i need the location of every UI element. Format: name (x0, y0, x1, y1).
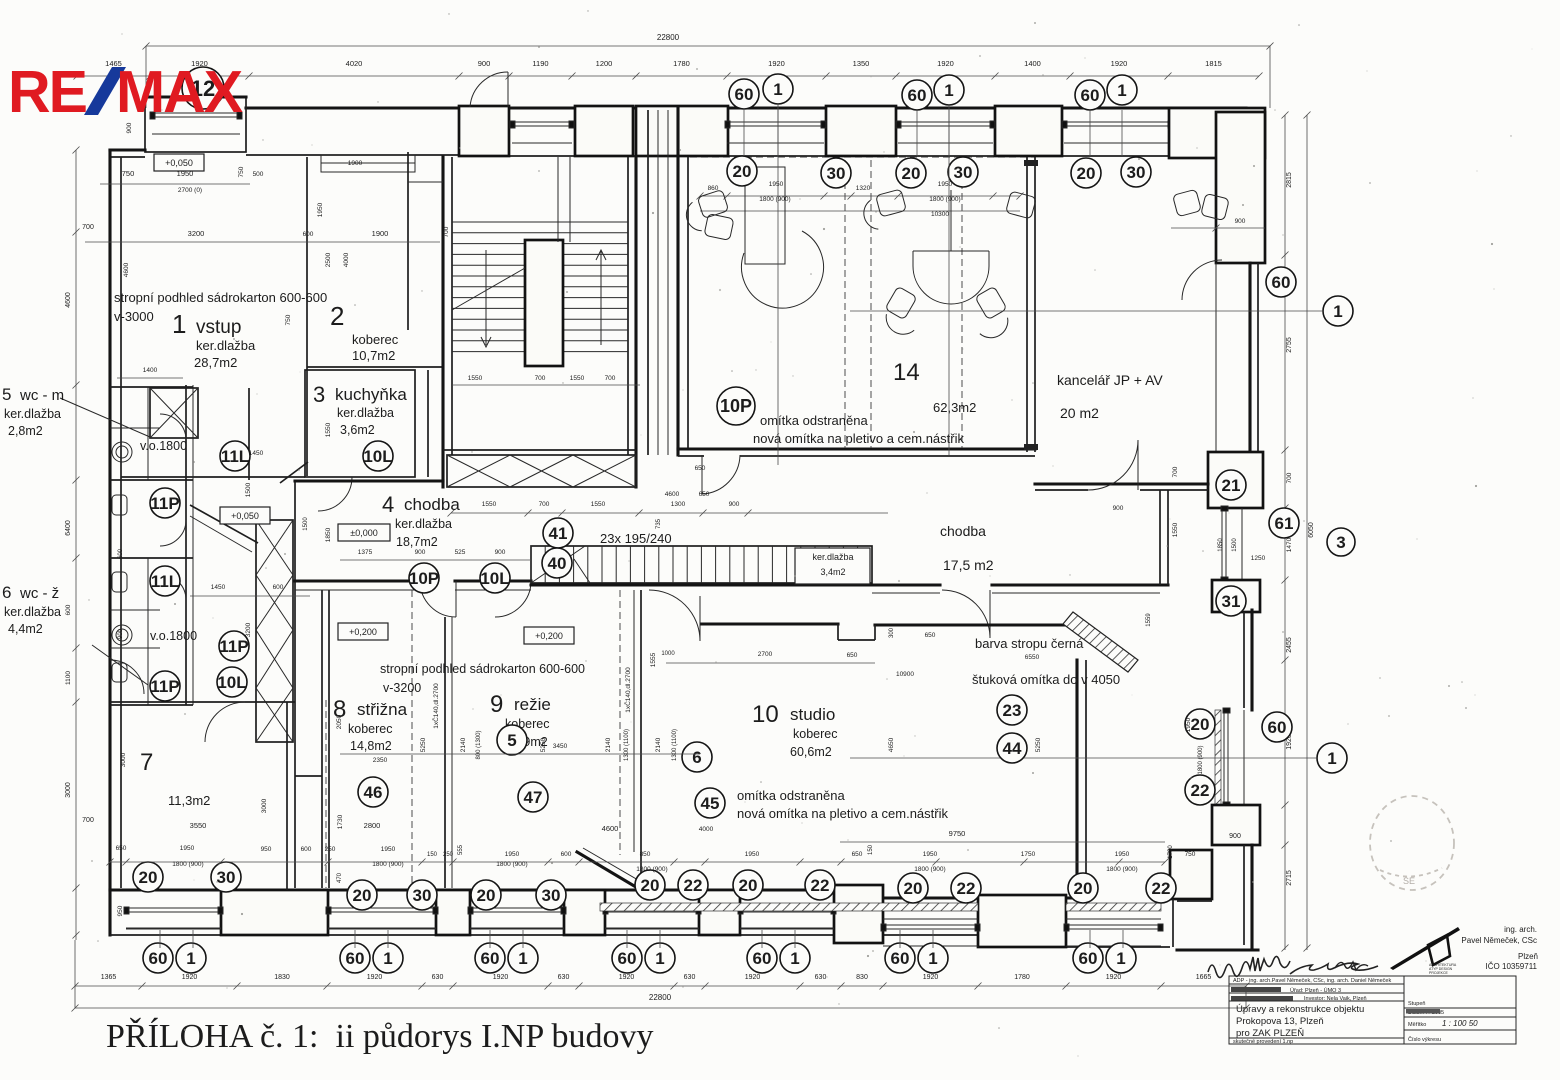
svg-text:1400: 1400 (143, 367, 158, 374)
svg-text:2: 2 (330, 301, 344, 331)
circled ref 60 (1075, 80, 1105, 110)
svg-text:11P: 11P (219, 637, 248, 656)
svg-text:1800 (900): 1800 (900) (172, 861, 203, 868)
svg-text:60,6m2: 60,6m2 (790, 745, 832, 759)
circled ref 61 (1269, 508, 1299, 538)
svg-text:10L: 10L (363, 447, 392, 466)
svg-text:1830: 1830 (274, 974, 290, 981)
REMAX logo (8, 59, 243, 125)
svg-text:ker.dlažba: ker.dlažba (812, 552, 853, 562)
svg-text:1: 1 (773, 80, 782, 99)
bottom dimension chain row (75, 985, 1246, 987)
svg-text:470: 470 (337, 872, 343, 883)
signature squiggles (1208, 956, 1290, 977)
svg-text:900: 900 (1229, 833, 1241, 840)
svg-text:1800 (900): 1800 (900) (636, 866, 667, 873)
svg-text:1320: 1320 (856, 185, 871, 192)
svg-text:10: 10 (752, 701, 779, 728)
stairwell west wall (441, 157, 444, 487)
right dimension chain (1284, 115, 1286, 950)
kuchynka chamfer (280, 462, 308, 483)
svg-text:wc - ž: wc - ž (19, 585, 59, 602)
svg-text:1920: 1920 (923, 974, 939, 981)
axis lines below top circles (743, 110, 745, 156)
svg-text:1780: 1780 (1014, 974, 1030, 981)
circled ref 6 (682, 742, 712, 772)
svg-text:60: 60 (753, 949, 772, 968)
svg-text:1: 1 (1327, 749, 1336, 768)
svg-text:2,8m2: 2,8m2 (8, 424, 43, 438)
svg-text:1950: 1950 (1115, 851, 1130, 858)
svg-text:650: 650 (116, 845, 127, 852)
svg-text:650: 650 (847, 652, 858, 659)
svg-text:pro ZAK PLZEŇ: pro ZAK PLZEŇ (1236, 1028, 1304, 1039)
circled ref 20 (733, 870, 763, 900)
svg-text:1920: 1920 (1106, 974, 1122, 981)
svg-text:61: 61 (1275, 514, 1294, 533)
circled ref 30 (1121, 157, 1151, 187)
circled ref 11P (150, 671, 180, 701)
svg-text:stropní podhled sádrokarton 60: stropní podhled sádrokarton 600-600 (380, 662, 585, 676)
svg-text:1920: 1920 (745, 974, 761, 981)
svg-text:1450: 1450 (249, 450, 264, 457)
svg-text:1665: 1665 (1196, 974, 1212, 981)
svg-text:60: 60 (1272, 273, 1291, 292)
circled ref 46 (358, 777, 388, 807)
stair break line (452, 268, 525, 310)
svg-text:PŘÍLOHA č. 1: ii půdorys I.NP: PŘÍLOHA č. 1: ii půdorys I.NP budovy (106, 1018, 653, 1055)
svg-text:555: 555 (458, 844, 464, 855)
stairwell east wall (634, 157, 637, 487)
svg-text:ADP - ing. arch.Pavel Němeček,: ADP - ing. arch.Pavel Němeček, CSc, ing.… (1233, 978, 1391, 984)
title block (1229, 976, 1516, 1044)
svg-text:PROJEKCE: PROJEKCE (1429, 971, 1449, 975)
svg-text:44: 44 (1003, 739, 1022, 758)
svg-text:vstup: vstup (196, 317, 241, 338)
svg-text:4600: 4600 (123, 262, 130, 277)
svg-text:v-3000: v-3000 (114, 309, 154, 324)
circled ref 60 (729, 79, 759, 109)
circled ref 22 (678, 870, 708, 900)
svg-text:1950: 1950 (769, 181, 784, 188)
svg-text:750: 750 (238, 166, 245, 177)
svg-text:700: 700 (1286, 472, 1293, 483)
1400 dim wc (117, 377, 183, 379)
svg-text:Investor: Nela Vaik, Plzeň: Investor: Nela Vaik, Plzeň (1304, 996, 1367, 1002)
north windows (510, 121, 574, 143)
svg-text:1: 1 (790, 949, 799, 968)
circled ref 11P (219, 631, 249, 661)
south wall outer face (110, 934, 980, 936)
circled ref 1 (1317, 743, 1347, 773)
svg-text:22: 22 (957, 879, 976, 898)
duct walls left of room 8 (294, 480, 296, 888)
svg-text:Měřítko: Měřítko (1408, 1022, 1426, 1028)
svg-text:omítka odstraněna: omítka odstraněna (737, 788, 845, 803)
svg-text:60: 60 (1268, 718, 1287, 737)
stairwell bottom wall (443, 449, 636, 451)
room14 dashed refs (844, 160, 846, 448)
circled ref 1 (780, 943, 810, 973)
circled ref 20 (896, 158, 926, 188)
svg-text:1750: 1750 (1021, 851, 1036, 858)
circled ref 20 (1071, 158, 1101, 188)
office desk bay 2 (room14 right, U-desk) (913, 251, 989, 304)
svg-text:6: 6 (2, 583, 11, 602)
svg-text:900: 900 (495, 549, 506, 556)
svg-text:1500: 1500 (1232, 538, 1238, 552)
svg-text:Stupeň: Stupeň (1408, 1001, 1425, 1007)
corridor top wall left part (295, 479, 443, 482)
svg-text:ker.dlažba: ker.dlažba (395, 517, 452, 531)
circled ref 20 (1185, 709, 1215, 739)
band window box above room2 (321, 155, 415, 172)
svg-text:IČO 10359711: IČO 10359711 (1486, 962, 1538, 971)
svg-text:1550: 1550 (325, 422, 332, 437)
svg-text:60: 60 (908, 86, 927, 105)
dashed ref x962 (961, 160, 963, 448)
svg-text:1950: 1950 (745, 851, 760, 858)
svg-text:900: 900 (478, 59, 491, 68)
south wall inner face (110, 888, 838, 891)
room2 right duct wall (407, 152, 409, 330)
svg-text:23x 195/240: 23x 195/240 (600, 531, 672, 546)
svg-text:900: 900 (1235, 218, 1246, 225)
svg-text:1xČ140,dl.2700: 1xČ140,dl.2700 (623, 667, 632, 713)
door 10P corridor->room8 (420, 581, 456, 617)
circled ref 1 (176, 943, 206, 973)
svg-text:koberec: koberec (352, 332, 399, 347)
svg-text:20: 20 (641, 876, 660, 895)
partition room14 / kancelar (1026, 157, 1028, 452)
svg-text:500: 500 (253, 171, 264, 178)
svg-text:830: 830 (856, 974, 868, 981)
circled ref 10P (409, 563, 439, 593)
svg-text:1300 (1100): 1300 (1100) (672, 729, 678, 761)
svg-text:1450: 1450 (211, 584, 226, 591)
svg-text:9750: 9750 (949, 829, 966, 838)
svg-text:750: 750 (285, 314, 292, 325)
svg-text:3450: 3450 (553, 743, 568, 750)
svg-text:10,7m2: 10,7m2 (352, 348, 395, 363)
door 10L corridor->room9 (495, 581, 531, 617)
svg-text:30: 30 (542, 886, 561, 905)
svg-text:1470: 1470 (1286, 537, 1293, 552)
circled ref 30 (821, 158, 851, 188)
svg-text:650: 650 (699, 491, 710, 498)
svg-text:21: 21 (1222, 476, 1241, 495)
circled ref 10P (717, 387, 755, 425)
svg-text:1900: 1900 (348, 160, 363, 167)
corridor/stair strip 23x195/240 (531, 546, 872, 583)
svg-text:1: 1 (655, 949, 664, 968)
svg-text:4: 4 (382, 492, 394, 517)
svg-text:5250: 5250 (540, 737, 547, 752)
room 14 west wall (676, 108, 679, 455)
svg-text:630: 630 (684, 974, 696, 981)
svg-text:20: 20 (739, 876, 758, 895)
room7 right wall jog (295, 775, 322, 777)
svg-text:Úpravy a rekonstrukce objektu: Úpravy a rekonstrukce objektu (1236, 1004, 1364, 1015)
svg-text:20: 20 (353, 886, 372, 905)
circled ref 11L (150, 566, 180, 596)
studio door left arc (649, 590, 700, 641)
svg-text:1920: 1920 (182, 974, 198, 981)
bottom dim rows above circles (110, 861, 1165, 863)
svg-text:10P: 10P (409, 569, 439, 588)
svg-text:1950: 1950 (1185, 717, 1192, 732)
svg-text:45: 45 (701, 794, 720, 813)
stair treads (452, 221, 628, 223)
circled ref 1 (1323, 296, 1353, 326)
circled ref 22 (1146, 873, 1176, 903)
svg-text:štuková omítka do v 4050: štuková omítka do v 4050 (972, 672, 1120, 687)
svg-text:1950: 1950 (938, 181, 953, 188)
svg-text:700: 700 (539, 501, 550, 508)
circled ref 20 (727, 156, 757, 186)
svg-text:2715: 2715 (1286, 870, 1293, 886)
svg-text:1550: 1550 (482, 501, 497, 508)
svg-text:střižna: střižna (357, 700, 408, 719)
circled ref 1 (508, 943, 538, 973)
circled ref 60 (143, 943, 173, 973)
circled ref 12 (182, 67, 224, 109)
svg-text:1100: 1100 (65, 671, 72, 685)
svg-text:700: 700 (443, 226, 450, 237)
studio east wall (1075, 660, 1078, 899)
svg-text:SE: SE (1403, 876, 1415, 886)
svg-text:30: 30 (954, 163, 973, 182)
svg-text:28,7m2: 28,7m2 (194, 355, 237, 370)
svg-text:11L: 11L (151, 572, 179, 591)
room 14 south wall (678, 447, 1035, 450)
room2 south wall (307, 366, 443, 368)
wing inner left wall lower (1172, 899, 1174, 947)
svg-text:1900: 1900 (372, 229, 389, 238)
svg-text:Úřad: Plzeň - ÚMO 3: Úřad: Plzeň - ÚMO 3 (1290, 987, 1341, 994)
svg-text:250: 250 (325, 846, 336, 853)
svg-text:525: 525 (455, 549, 466, 556)
circled ref 11P (150, 488, 180, 518)
svg-text:150: 150 (868, 844, 874, 855)
svg-text:2455: 2455 (1286, 637, 1293, 653)
circled ref 41 (543, 518, 573, 548)
svg-text:ker.dlažba: ker.dlažba (4, 605, 61, 619)
stamp faint (1370, 796, 1454, 890)
circled ref 1 (373, 943, 403, 973)
circled ref 20 (471, 880, 501, 910)
svg-text:20: 20 (1191, 715, 1210, 734)
svg-text:nová omítka na pletivo a cem.n: nová omítka na pletivo a cem.nástřik (753, 431, 964, 446)
svg-text:60: 60 (618, 949, 637, 968)
north wall outer face (246, 106, 1246, 109)
room 7 walls (110, 701, 295, 703)
circled ref 1 (763, 74, 793, 104)
svg-text:1800 (900): 1800 (900) (372, 861, 403, 868)
svg-text:20: 20 (1074, 879, 1093, 898)
wc door arcs (160, 414, 186, 440)
svg-text:60: 60 (481, 949, 500, 968)
room8/9 divider (444, 617, 446, 888)
south wall piers (221, 890, 328, 935)
circled ref 60 (902, 80, 932, 110)
svg-text:1000: 1000 (661, 651, 675, 657)
svg-text:14,8m2: 14,8m2 (350, 739, 392, 753)
room 7 door arc (205, 702, 245, 742)
svg-text:14: 14 (893, 359, 920, 386)
svg-text:1550: 1550 (468, 375, 483, 382)
svg-text:150: 150 (427, 852, 438, 858)
axis line from circle 1 top-left through plan (777, 104, 779, 465)
svg-text:chodba: chodba (940, 523, 986, 539)
svg-text:2350: 2350 (373, 757, 388, 764)
svg-text:40: 40 (548, 554, 567, 573)
main entrance door arc (470, 72, 508, 107)
svg-text:3: 3 (313, 382, 325, 407)
svg-text:5: 5 (2, 385, 11, 404)
studio top notch (837, 624, 839, 640)
kancelar door arc (1088, 440, 1138, 490)
door 10P room14 (702, 455, 740, 494)
svg-text:1730: 1730 (337, 814, 344, 829)
svg-text:1: 1 (1333, 302, 1342, 321)
svg-text:3000: 3000 (120, 752, 127, 767)
room9/10 chamfer wall (577, 852, 641, 890)
svg-text:600: 600 (561, 851, 572, 858)
svg-text:20 m2: 20 m2 (1060, 405, 1099, 421)
svg-text:950: 950 (117, 905, 124, 916)
svg-text:11L: 11L (221, 447, 249, 466)
circled ref 22 (1185, 775, 1215, 805)
svg-text:1: 1 (172, 309, 186, 339)
east wall mid (1250, 610, 1253, 710)
svg-text:20: 20 (477, 886, 496, 905)
svg-text:1920: 1920 (1111, 59, 1128, 68)
svg-text:700: 700 (82, 224, 94, 231)
office desk bay 1 (room14 left) (745, 167, 785, 264)
room9/10 divider (640, 590, 642, 888)
svg-text:650: 650 (695, 465, 706, 472)
svg-text:30: 30 (217, 868, 236, 887)
svg-text:4600: 4600 (65, 292, 72, 308)
circled ref 3 (1327, 528, 1355, 556)
svg-text:ing. arch.: ing. arch. (1504, 925, 1537, 934)
svg-text:11,3m2: 11,3m2 (168, 793, 210, 808)
east pier at 21 (1208, 452, 1263, 508)
svg-text:735: 735 (656, 518, 662, 529)
circled ref 47 (518, 782, 548, 812)
corridor dim row (451, 512, 888, 514)
svg-text:ker.dlažba: ker.dlažba (4, 407, 61, 421)
svg-text:17,5 m2: 17,5 m2 (943, 557, 994, 573)
svg-text:6550: 6550 (1025, 654, 1040, 661)
room1 lower-left wall (248, 388, 250, 480)
svg-text:+0,050: +0,050 (231, 511, 259, 521)
kuchynka walls (305, 370, 415, 477)
corridor piece wall right of kuchynka (427, 370, 429, 477)
svg-text:2815: 2815 (1286, 172, 1293, 188)
svg-text:30: 30 (827, 164, 846, 183)
svg-text:1800 (900): 1800 (900) (759, 196, 790, 203)
svg-text:1: 1 (1117, 81, 1126, 100)
kuchynka door arc (318, 477, 352, 511)
svg-text:1300: 1300 (671, 501, 686, 508)
svg-text:41: 41 (549, 524, 568, 543)
svg-text:1800 (900): 1800 (900) (496, 861, 527, 868)
svg-text:600: 600 (273, 584, 284, 591)
top-left window bay (145, 97, 246, 152)
svg-text:31: 31 (1222, 592, 1241, 611)
svg-text:900: 900 (118, 628, 124, 639)
circled ref 20 (133, 862, 163, 892)
svg-text:2500: 2500 (325, 252, 332, 267)
wc block east wall (185, 385, 187, 705)
level boxes rooms 8/9 (338, 623, 388, 640)
svg-text:1: 1 (186, 949, 195, 968)
svg-text:1800 (900): 1800 (900) (914, 866, 945, 873)
circled ref 30 (536, 880, 566, 910)
wc-m partition (110, 427, 160, 429)
svg-text:Pavel Němeček, CSc: Pavel Němeček, CSc (1461, 936, 1537, 945)
svg-text:2700: 2700 (758, 651, 773, 658)
wc-z partition (147, 558, 149, 705)
svg-text:20: 20 (733, 162, 752, 181)
svg-text:5250: 5250 (1035, 737, 1042, 752)
svg-text:950: 950 (261, 846, 272, 853)
svg-text:v.o.1800: v.o.1800 (150, 629, 197, 643)
svg-text:47: 47 (524, 788, 543, 807)
svg-text:3000: 3000 (261, 798, 268, 813)
circled ref 60 (1073, 943, 1103, 973)
corridor level boxes (220, 507, 270, 524)
kancelar south wall (1035, 482, 1208, 485)
svg-text:750: 750 (1185, 851, 1196, 858)
svg-text:1190: 1190 (532, 59, 548, 68)
svg-text:46: 46 (364, 783, 383, 802)
svg-text:1950: 1950 (317, 202, 324, 217)
svg-text:650: 650 (925, 632, 936, 639)
svg-text:1950: 1950 (923, 851, 938, 858)
circled ref 11L (220, 441, 250, 471)
circled ref 1 (645, 943, 675, 973)
svg-text:1375: 1375 (358, 549, 373, 556)
svg-text:1 : 100 50: 1 : 100 50 (1442, 1019, 1478, 1028)
svg-text:2140: 2140 (655, 737, 662, 752)
svg-text:650: 650 (852, 851, 863, 858)
svg-text:kancelář JP + AV: kancelář JP + AV (1057, 372, 1163, 388)
circled ref 60 (1266, 267, 1296, 297)
corridor bottom wall left part (295, 579, 420, 582)
svg-text:630: 630 (558, 974, 570, 981)
svg-text:+0,050: +0,050 (165, 158, 193, 168)
svg-text:11P: 11P (150, 677, 179, 696)
svg-text:1: 1 (944, 81, 953, 100)
circled ref 20 (635, 870, 665, 900)
west upper wall line (110, 148, 145, 151)
svg-text:750: 750 (122, 169, 135, 178)
svg-text:2755: 2755 (1286, 337, 1293, 353)
svg-text:3,6m2: 3,6m2 (340, 423, 375, 437)
circled ref 22 (805, 870, 835, 900)
svg-text:režie: režie (514, 695, 551, 714)
svg-text:1800 (900): 1800 (900) (1106, 866, 1137, 873)
svg-text:23: 23 (1003, 701, 1022, 720)
svg-text:v-3200: v-3200 (383, 681, 421, 695)
corridor diagonal walls near +0,050 (190, 505, 258, 543)
svg-text:+0,200: +0,200 (535, 631, 563, 641)
circled ref 20 (898, 873, 928, 903)
svg-text:1: 1 (1116, 949, 1125, 968)
